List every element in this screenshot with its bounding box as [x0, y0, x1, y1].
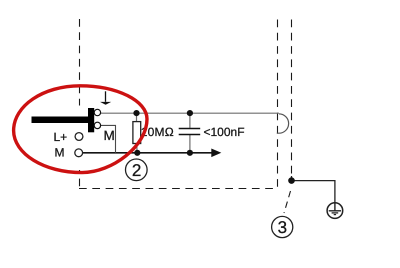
svg-text:2: 2	[132, 161, 141, 180]
svg-text:M: M	[104, 128, 115, 143]
svg-text:L+: L+	[54, 130, 68, 144]
svg-text:M: M	[55, 146, 65, 160]
svg-text:<100nF: <100nF	[204, 125, 245, 139]
svg-text:3: 3	[278, 218, 287, 237]
